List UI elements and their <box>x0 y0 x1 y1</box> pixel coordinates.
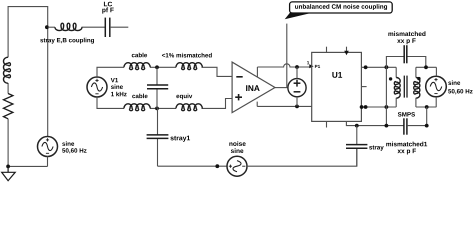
label — cable (bottom) <box>132 94 147 99</box>
label — mismatched1 <box>386 142 427 147</box>
wire — left coil bottom stem <box>395 98 397 107</box>
node — dot b <box>385 65 389 69</box>
label — 50,60 Hz (left source) <box>62 148 86 153</box>
transformer — primary coil <box>394 78 400 99</box>
pin — U1 bottom pin to wire <box>346 121 403 125</box>
label — cable (top) <box>132 53 147 58</box>
node — dot i <box>385 124 389 128</box>
inductor — cable (bottom) <box>124 104 150 111</box>
node — dot a <box>364 65 368 69</box>
pin — U1 top stub <box>326 47 328 53</box>
pin — U1 right stub <box>361 86 366 88</box>
transformer — core <box>404 76 407 98</box>
label — INA plus input <box>235 94 242 100</box>
capacitor — mismatched xx p F <box>404 45 407 63</box>
node — dot d <box>360 105 364 109</box>
label — P1 <box>315 65 320 68</box>
wire — top-left loop (left vertical, top, right vertical) <box>8 7 48 167</box>
node — sum bottom junction <box>295 105 299 109</box>
wire — down from dot g <box>426 107 428 126</box>
label — 1 kHz <box>111 92 127 96</box>
wire — right coil stems <box>415 67 417 107</box>
node — dot g <box>425 105 429 109</box>
node — dot h (stray cap top) <box>355 124 359 128</box>
capacitor — SMPS <box>404 118 407 134</box>
wire — transformer top right segment <box>416 66 437 68</box>
wire — stray E,B branch to LC cap <box>48 26 105 28</box>
wire — tap from INA bottom edge to feedback wire <box>256 102 258 107</box>
node — bottom mid junction <box>155 107 159 111</box>
wire — vertical bypass at 386 <box>385 67 387 125</box>
label — mismatched <box>388 31 425 36</box>
voltage source — mains sine 50,60 Hz (left) <box>38 137 58 157</box>
label — noise <box>229 141 245 146</box>
inductor — cable (top) <box>124 63 150 70</box>
wire — tap from INA top edge to P1 wire <box>256 67 258 77</box>
op-amp — INA instrumentation amp <box>232 62 275 113</box>
capacitor — LC (series, vertical plates) <box>105 18 110 37</box>
wire — U1 right top to transformer <box>361 66 396 68</box>
voltage source — V1 sine 1 kHz <box>87 77 107 97</box>
node — junction of stray E,B branch on loop <box>45 25 49 29</box>
inductor — equiv <box>176 104 202 111</box>
inductor — stray E,B coupling <box>55 23 82 30</box>
voltage source — noise sine <box>227 156 247 176</box>
wire — P1 wire with hop over callout wire <box>257 64 310 67</box>
label — sine (noise) <box>231 148 244 153</box>
label — sine (V1) <box>111 84 123 89</box>
transformer — secondary coil <box>414 78 420 99</box>
capacitor — stray1 <box>147 135 169 139</box>
label — sine (right) <box>448 80 460 85</box>
wire — up to mismatched cap rail <box>386 57 425 68</box>
wire — transformer bottom right segment <box>416 106 437 108</box>
node — ground junction <box>6 165 10 169</box>
capacitor — line-to-line equiv (middle) <box>147 85 168 89</box>
label — equiv <box>176 94 192 100</box>
wire — noise rail left <box>158 165 228 167</box>
wire — callout pointer wire <box>286 24 288 88</box>
pin — U1 pin 1 arrow <box>309 64 313 68</box>
wire — sum source top stub <box>296 67 298 79</box>
ground — earth symbol <box>2 166 16 180</box>
wire — after LC cap <box>110 26 128 28</box>
label — pin number 1 <box>307 61 309 64</box>
callout — unbalanced CM noise coupling <box>285 2 393 19</box>
wire — stray1 stem <box>157 108 159 166</box>
resistor — left loop series resistance <box>4 94 13 119</box>
pin — U1 top arrow pin <box>344 47 349 56</box>
wire — right sine stubs <box>435 67 437 107</box>
wire — wire C right of SMPS cap <box>407 125 427 127</box>
pin — U1 bottom stub <box>326 121 328 127</box>
wire — transformer bottom left segment <box>361 106 396 108</box>
label — 50,60 Hz (right) <box>448 89 472 94</box>
label — xx p F (top) <box>397 38 416 44</box>
wire — noise rail right <box>247 148 357 166</box>
wire — feedback wire to U1 left edge <box>257 105 312 107</box>
node — noise rail junction <box>215 164 219 168</box>
label — U1 <box>332 72 342 78</box>
inductor — <1% mismatched (top) <box>176 63 202 70</box>
wire — stray cap stem <box>356 126 358 167</box>
wire — left source bottom to ground rail <box>8 157 47 167</box>
label — LC <box>104 2 112 7</box>
wire — INA output to sum source <box>275 87 288 89</box>
label — <1% mismatched <box>162 53 212 58</box>
label — INA <box>246 85 260 91</box>
node — dot e <box>364 105 368 109</box>
label — INA minus input <box>236 76 242 78</box>
label — stray E,B coupling <box>40 38 94 44</box>
component box — U1 <box>312 52 362 121</box>
wire — mid capacitor stem <box>156 67 158 108</box>
wire — V1 top to INA- input <box>97 67 232 77</box>
capacitor — stray <box>346 145 367 149</box>
node — primary polarity dot <box>389 77 392 80</box>
inductor — stray coupling loop inductance (left vertical coil) <box>3 57 10 83</box>
node — dot j <box>425 124 429 128</box>
voltage source — CM noise sum source <box>288 79 306 97</box>
label — pf F <box>102 7 113 13</box>
node — sum top junction <box>295 65 299 69</box>
node — dot f <box>385 105 389 109</box>
wire — sum source bottom stub <box>296 97 298 107</box>
wire — V1 bottom to INA+ input <box>97 97 232 108</box>
label — stray <box>369 145 384 150</box>
label — SMPS <box>398 112 415 116</box>
node — top mid junction <box>155 65 159 69</box>
label — stray1 <box>170 136 190 142</box>
node — secondary polarity dot <box>417 77 420 80</box>
label — V1 <box>111 78 118 82</box>
label — sine (left source) <box>62 141 74 146</box>
node — dot c <box>424 65 428 69</box>
label — xx p F (bottom) <box>397 149 416 155</box>
voltage source — mains sine 50,60 Hz (right) <box>426 76 447 97</box>
wire — left coil top stem <box>395 67 397 77</box>
